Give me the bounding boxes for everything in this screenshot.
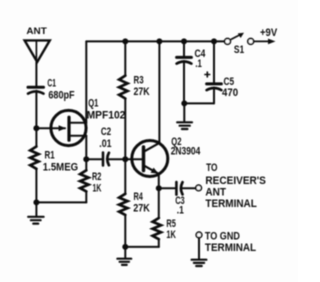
- svg-text:MPF102: MPF102: [87, 109, 126, 121]
- svg-text:.1: .1: [195, 58, 202, 70]
- svg-text:RECEIVER'S: RECEIVER'S: [205, 175, 266, 187]
- wire collector to rail: [158, 41, 160, 142]
- wire C5 bottom link: [184, 102, 214, 104]
- svg-text:27K: 27K: [134, 86, 150, 98]
- transistor Q2 2N3904: [132, 141, 168, 177]
- wire antenna to C1: [35, 62, 37, 87]
- node rail C5: [211, 38, 217, 44]
- svg-text:.1: .1: [177, 204, 184, 216]
- wire bottom link R4-R5: [125, 246, 159, 248]
- svg-text:R1: R1: [45, 150, 55, 162]
- node rail C4: [181, 38, 187, 44]
- resistor R3: [119, 41, 127, 159]
- ground under C4/C5: [177, 103, 192, 129]
- node rail R3: [122, 38, 128, 44]
- svg-text:.01: .01: [99, 138, 111, 150]
- svg-text:1.5MEG: 1.5MEG: [43, 161, 78, 173]
- svg-text:ANT: ANT: [26, 26, 47, 37]
- wire emitter down: [158, 173, 160, 188]
- svg-text:27K: 27K: [133, 203, 150, 215]
- wire to C2: [86, 158, 101, 160]
- svg-text:TERMINAL: TERMINAL: [205, 198, 257, 210]
- resistor R4: [119, 159, 127, 247]
- wire to C3: [159, 187, 175, 189]
- svg-text:TO GND: TO GND: [205, 231, 240, 243]
- ground under gnd terminal: [192, 238, 207, 266]
- svg-text:1K: 1K: [166, 229, 176, 241]
- resistor R5: [153, 188, 161, 247]
- antenna ANT symbol: [25, 40, 50, 62]
- capacitor C4: [177, 41, 192, 103]
- svg-text:ANT: ANT: [205, 187, 226, 199]
- capacitor C1: [28, 87, 44, 93]
- svg-text:Q1: Q1: [88, 98, 98, 110]
- svg-text:C2: C2: [101, 126, 111, 138]
- switch S1: [225, 33, 254, 45]
- capacitor C5 electrolytic: [205, 41, 222, 103]
- wire C1 to gate node: [35, 91, 37, 147]
- capacitor C3: [176, 182, 182, 195]
- svg-text:1K: 1K: [93, 182, 102, 194]
- svg-text:TO: TO: [206, 162, 217, 174]
- ground under R1: [28, 202, 43, 223]
- svg-text:R5: R5: [166, 218, 176, 230]
- resistor R1: [30, 147, 38, 203]
- ground under R4: [117, 247, 131, 265]
- node R4/R5 bottom junction: [122, 244, 128, 250]
- op JFET Q1 MPF102: [51, 110, 86, 145]
- node rail collector: [156, 38, 162, 44]
- node C4/C5 bottom junction: [181, 100, 187, 106]
- node receiver terminal: [196, 185, 202, 191]
- svg-text:TERMINAL: TERMINAL: [205, 242, 257, 254]
- svg-text:2N3904: 2N3904: [171, 146, 201, 158]
- node emitter junction: [156, 185, 162, 191]
- wire gate: [36, 127, 52, 129]
- node gate junction: [33, 125, 39, 131]
- svg-text:R2: R2: [92, 171, 101, 183]
- svg-text:S1: S1: [234, 44, 244, 56]
- wire base: [125, 158, 142, 160]
- svg-text:R4: R4: [134, 191, 143, 203]
- node base junction: [122, 156, 128, 162]
- wire supply arrow: [254, 39, 276, 45]
- resistor R2: [80, 159, 88, 202]
- svg-text:C1: C1: [47, 77, 56, 89]
- node R1/R2 bottom junction: [33, 199, 39, 205]
- node source junction: [83, 156, 89, 162]
- svg-text:470: 470: [222, 87, 238, 99]
- capacitor C2: [103, 153, 109, 166]
- wire top rail: [86, 40, 224, 42]
- node gnd terminal: [196, 232, 202, 238]
- wire source down: [85, 136, 87, 159]
- wire drain to rail: [85, 41, 87, 122]
- wire C2 to base node: [109, 158, 125, 160]
- wire bottom link: [36, 201, 86, 203]
- svg-text:+9V: +9V: [260, 27, 277, 39]
- svg-text:R3: R3: [134, 75, 144, 87]
- wire C3 to terminal: [183, 187, 196, 189]
- svg-text:680pF: 680pF: [48, 89, 75, 101]
